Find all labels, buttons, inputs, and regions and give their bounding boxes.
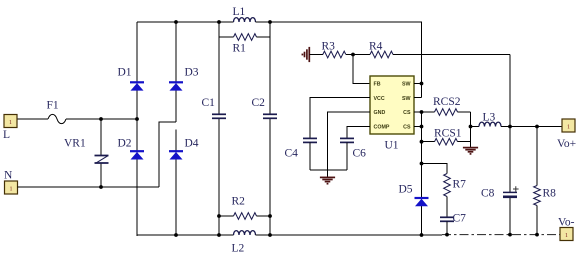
resistor R8 (536, 127, 538, 186)
svg-text:F1: F1 (47, 100, 59, 112)
svg-text:VR1: VR1 (64, 138, 86, 150)
svg-text:1: 1 (9, 120, 12, 126)
node SW (420, 82, 424, 86)
svg-text:L1: L1 (233, 6, 246, 18)
svg-text:C6: C6 (353, 148, 367, 160)
resistor RCS2 (435, 109, 458, 116)
wire L to bridge (66, 118, 137, 120)
wire left bridge rail (136, 22, 138, 236)
svg-text:RCS1: RCS1 (434, 128, 462, 140)
svg-text:1: 1 (567, 125, 570, 131)
svg-text:SW: SW (402, 96, 411, 102)
wire FB to divider (353, 55, 370, 84)
wire top rail right (256, 22, 422, 98)
svg-text:R2: R2 (232, 196, 246, 208)
ground U1 (below C4/C6) (327, 170, 329, 177)
terminal L (4, 115, 17, 128)
node C8 bottom (508, 233, 512, 237)
terminal N (5, 181, 18, 194)
svg-text:C8: C8 (481, 188, 495, 200)
node bottom rail C1 (217, 233, 221, 237)
node L3 tap (469, 125, 473, 129)
wire R7 branch (422, 164, 448, 174)
svg-text:R8: R8 (543, 188, 557, 200)
svg-text:R7: R7 (453, 179, 467, 191)
svg-text:D1: D1 (118, 67, 132, 79)
svg-text:Vo-: Vo- (558, 217, 575, 229)
svg-text:RCS2: RCS2 (433, 96, 461, 108)
wire N input (18, 186, 160, 188)
svg-text:VCC: VCC (374, 96, 385, 102)
svg-text:U1: U1 (385, 140, 399, 152)
capacitor C7 (446, 197, 448, 218)
wire L input (17, 118, 48, 120)
varistor VR1 (100, 119, 102, 156)
wire bottom rail left (137, 234, 234, 236)
wire GND pin down (328, 112, 371, 170)
node R2 right (268, 214, 272, 218)
svg-text:C4: C4 (285, 148, 299, 160)
capacitor C6 (340, 137, 354, 139)
wire feedback drop (509, 55, 511, 127)
node L-bridge (135, 117, 139, 121)
svg-text:1: 1 (10, 187, 13, 193)
ground CS node (463, 147, 478, 149)
svg-text:CS: CS (403, 110, 411, 116)
capacitor C4 (303, 137, 317, 139)
diode D5 (421, 112, 423, 235)
svg-text:SW: SW (402, 82, 411, 88)
wire right bridge rail lower (175, 130, 177, 237)
svg-text:COMP: COMP (374, 125, 390, 131)
fuse F1 (48, 114, 66, 123)
wire output to Vo+ (501, 126, 562, 128)
op-amp U1 (regulator IC) (370, 76, 414, 134)
wire CS sense node (470, 112, 472, 147)
node D5 bottom (420, 233, 424, 237)
capacitor C1 (218, 22, 220, 114)
terminal Vo+ (562, 119, 575, 132)
svg-text:D3: D3 (185, 67, 199, 79)
node R7 tap (420, 162, 424, 166)
svg-text:1: 1 (565, 233, 568, 239)
wire right bridge rail upper (175, 22, 177, 122)
svg-text:R1: R1 (233, 43, 247, 55)
capacitor C8 (electrolytic) (509, 127, 511, 193)
node R2 left (217, 214, 221, 218)
wire SW pins (414, 84, 422, 98)
node bottom rail C2 (268, 233, 272, 237)
resistor R2 (219, 215, 234, 217)
svg-text:C1: C1 (202, 97, 216, 109)
node RCS1 tap (420, 140, 424, 144)
svg-text:R3: R3 (322, 41, 336, 53)
wire CS vertical (414, 112, 422, 235)
node VR1 bottom (99, 185, 103, 189)
node CS lower (420, 125, 424, 129)
node top rail C2 (268, 20, 272, 24)
svg-text:L2: L2 (232, 243, 245, 255)
wire analog ground bus (310, 169, 347, 171)
svg-text:L: L (3, 129, 10, 141)
resistor R3 (310, 54, 323, 56)
svg-text:R4: R4 (369, 41, 383, 53)
node C7 bottom (445, 233, 449, 237)
svg-text:C2: C2 (252, 97, 266, 109)
inductor L3 (471, 126, 480, 128)
node R8 bottom (535, 233, 539, 237)
node output C8 (508, 125, 512, 129)
node CS upper (420, 110, 424, 114)
node output R8 (535, 125, 539, 129)
diode D2 (130, 150, 144, 152)
capacitor C2 (269, 22, 271, 114)
svg-text:D4: D4 (185, 138, 199, 150)
ground R3 (sideways) (308, 47, 310, 62)
node R3-R4 FB tap (351, 53, 355, 57)
diode D3 (169, 81, 183, 83)
svg-text:L3: L3 (483, 112, 496, 124)
resistor R7 (444, 174, 451, 197)
resistor RCS1 (435, 138, 458, 145)
svg-text:Vo+: Vo+ (557, 138, 576, 150)
svg-text:D5: D5 (399, 184, 413, 196)
node bottom rail D4 (174, 233, 178, 237)
resistor R1 (219, 36, 234, 38)
svg-text:CS: CS (403, 125, 411, 131)
node VR1 top (99, 117, 103, 121)
svg-text:N: N (4, 170, 13, 182)
wire N jog up (159, 122, 176, 187)
diode D4 (169, 150, 183, 152)
wire COMP to C6 (347, 127, 370, 139)
resistor R4 (370, 51, 393, 58)
svg-text:FB: FB (374, 82, 381, 88)
inductor L1 (234, 18, 256, 22)
wire top rail left (137, 21, 234, 23)
wire VCC to C4 (310, 98, 370, 139)
wire bottom rail mid (256, 234, 443, 236)
diode D1 (130, 81, 144, 83)
svg-text:D2: D2 (118, 138, 132, 150)
terminal Vo- (560, 228, 573, 241)
svg-text:GND: GND (374, 110, 386, 116)
node top rail C1 (217, 20, 221, 24)
inductor L2 (234, 231, 256, 235)
node top rail D3 (174, 20, 178, 24)
svg-text:C7: C7 (453, 213, 467, 225)
wire bottom rail dashed to Vo- (442, 234, 560, 236)
